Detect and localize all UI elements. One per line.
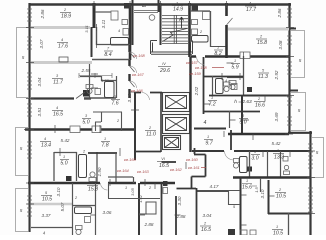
svg-text:4: 4 [91,181,93,185]
balcony left 1 [17,28,29,98]
wall left outer [28,3,30,232]
balcony right 2 [291,93,306,131]
TL bathtub [111,38,129,46]
toilet ML [86,85,93,94]
wall y214 stub [139,213,147,215]
label 5.0 left [60,155,69,167]
label room 16.5 [52,106,63,118]
svg-text:5: 5 [316,150,319,155]
wall 5.0r left x229 [229,111,231,128]
BR wc right partition x280 [280,151,282,177]
svg-text:3.10: 3.10 [56,187,61,196]
svg-text:кв.165: кв.165 [124,157,137,162]
BL sink [85,217,91,223]
wall x115 vertical corridor [115,153,117,182]
wall 9.7 right x231 [230,130,232,150]
label 15.8 bottom [87,181,98,193]
bottom center: wall x139 [138,183,140,235]
wall corridor left top [84,97,116,99]
door jamb x260 [260,178,262,192]
label 7.8 [101,137,110,149]
svg-text:IV: IV [162,62,166,66]
wall 5.9 bottom y77 [227,77,243,79]
BR dark square [247,167,252,172]
dark square in 11.7 [84,91,89,97]
svg-text:3.11: 3.11 [101,19,106,28]
svg-text:10.5: 10.5 [276,194,286,200]
label 10.5 right [275,188,286,200]
svg-text:16.5: 16.5 [53,112,63,118]
BR wall x288 lower [288,213,290,235]
stair landing box [151,41,193,55]
svg-text:3.18: 3.18 [127,93,132,102]
svg-text:4: 4 [61,38,63,42]
BL bathtub [75,207,92,214]
wall 11.7/16.5 divider [31,97,91,99]
label 5.0 right [239,114,248,126]
wall right outer upper [288,3,290,134]
svg-text:4: 4 [118,29,120,33]
svg-text:кв.160: кв.160 [186,157,199,162]
label room 18.9 [60,8,71,20]
BR wall y177 [233,176,311,178]
room 11.0 left wall [134,92,136,160]
room labels [40,2,286,237]
wall 16.5/13.4 apartment divider [25,128,136,131]
label room 17.6 [57,38,68,50]
svg-text:кв.158: кв.158 [195,65,208,70]
label lobby 29.6 [158,62,171,74]
label 10.x bottom right [272,225,283,237]
TR sink [192,20,198,25]
TR bath right wall [210,11,212,47]
svg-text:4: 4 [249,2,251,6]
door arc bottom y183 [101,183,108,190]
svg-text:кв.164: кв.164 [117,168,130,173]
svg-text:3.69: 3.69 [274,112,279,121]
wall 15.6/10.5 divider x268 [268,180,270,214]
wall corridor top y152 [88,152,117,154]
dark square 5.9 wc [247,87,252,92]
sink ML [95,89,101,95]
bottom center: wall x162 [161,183,163,235]
svg-text:10.5: 10.5 [273,231,283,236]
corridor bottom wall y162 [162,161,177,163]
wall 3.0/13.3 divider x267 [267,151,269,177]
svg-text:4: 4 [204,120,207,126]
MR toilet [224,82,231,92]
balcony right 1 [291,31,305,78]
door arc right y56 [197,57,205,65]
wall x174 bottom [175,196,177,235]
wall y128 corridor/9.7 [194,128,226,130]
svg-text:5.0: 5.0 [60,161,67,167]
svg-text:5: 5 [20,146,23,151]
svg-text:1: 1 [211,96,213,100]
ML closet walls under 7.6 [93,112,122,131]
label 10.5 left [41,191,52,203]
label 5.0 niche [82,114,91,126]
svg-text:5.0: 5.0 [239,120,246,126]
svg-text:4: 4 [56,106,58,110]
wall column 18.9 right [93,3,96,28]
MR bathtub vertical [216,79,224,94]
door arc corridor y151 [225,151,234,160]
svg-text:1: 1 [276,225,278,229]
wall hall 8.4 top y59.5 [92,59,130,61]
BR apt top wall y151 [192,150,311,152]
door leaf kv166 [130,81,135,87]
toilet 13.4 apt [89,172,96,182]
wall top outer [30,3,291,5]
wall corridor right x203 [203,57,205,114]
label 15.8 right [256,35,267,47]
TL apt: wall y12 [95,11,111,13]
svg-text:8.2: 8.2 [214,51,221,57]
stairwell left wall [160,3,162,45]
TR closet bottom wall [210,46,227,48]
svg-text:9.7: 9.7 [205,141,213,147]
svg-text:1: 1 [104,137,106,141]
elevator shaft 2 [163,115,190,134]
TR toilet [192,29,198,35]
wall right step nib y90 [289,90,298,92]
label lobby VI 16.5 [157,157,170,169]
svg-text:17.6: 17.6 [58,44,68,50]
svg-text:3.0: 3.0 [251,156,258,162]
chute room left wall [132,12,134,45]
corridor exit walls bottom-left jog [108,177,134,183]
wall y191 room 3.04 top [197,190,229,192]
lobby left wall with door gaps [128,45,130,98]
wall 16.6 bottom apt divider [228,133,289,136]
svg-text:2.86: 2.86 [277,8,282,18]
svg-text:11.3: 11.3 [258,74,268,80]
wall 17.6 right [91,27,93,57]
svg-text:4.17: 4.17 [210,184,219,189]
BR bathtub vertical [240,157,248,173]
svg-text:1.55: 1.55 [101,78,110,83]
bath 13.4 apt: tub vertical [79,155,87,178]
svg-text:1: 1 [246,179,248,183]
svg-text:3.08: 3.08 [278,40,283,49]
vent box wall 17.6 bottom [59,57,68,62]
wall 10.5 bottom [31,203,72,206]
wall 3.37 bottom [31,227,72,229]
red leader line [212,67,224,69]
BR wall y213 [268,213,311,215]
svg-text:13.3: 13.3 [274,155,284,161]
label 15.6 [242,179,257,191]
label 17.7 [245,2,257,14]
svg-text:2.86: 2.86 [40,9,45,19]
svg-text:кв.159: кв.159 [189,71,202,76]
svg-text:1: 1 [125,186,127,190]
door arc lobby kv167 [130,66,137,73]
svg-text:5: 5 [298,108,301,113]
svg-text:1.5: 1.5 [254,186,259,192]
vent box on 15.8 wall [240,52,250,59]
bottom small box right [250,230,256,235]
TL shaft dark box [124,3,130,9]
svg-text:16.5: 16.5 [201,227,211,233]
BR bath right wall x249 [249,151,251,177]
wall 11.3 bottom y95 [243,95,289,97]
TR bathtub [192,36,209,43]
wall left of elevators [160,92,162,152]
wall right step [288,132,312,134]
svg-text:14.9: 14.9 [173,7,183,13]
svg-text:5: 5 [20,208,23,213]
svg-text:5: 5 [299,58,302,63]
TR apt: dark shaft box [192,5,199,11]
svg-text:10.5: 10.5 [42,197,52,203]
label 5.9 [231,59,240,71]
balcony left 2 [16,128,29,176]
balcony left 3 [16,189,29,232]
garbage chute circle [149,15,155,21]
svg-text:2.88: 2.88 [144,222,154,227]
label 16.6 [254,97,265,109]
label 7.2 [208,96,217,108]
wall right of elevators [189,57,191,152]
svg-text:1: 1 [176,2,178,6]
bottom edge duct marks [228,229,235,235]
wall bottom apartments divider y182 [28,182,175,184]
svg-text:18.9: 18.9 [61,14,71,20]
room 5.0 left box [54,152,77,181]
elevator shaft 1 [163,93,190,112]
TL storage box [111,11,118,20]
door arc lobby kv166 [130,81,137,88]
door arc lobby kv168 [130,52,137,59]
MR bath top wall y76 [203,76,243,78]
wall 15.8 bottom apt divider [191,55,289,57]
label hall 8.4 [104,47,113,59]
svg-text:16.5: 16.5 [159,163,169,169]
svg-text:15.8: 15.8 [88,187,98,193]
svg-text:3.11: 3.11 [84,25,89,33]
dim line 2.55 [79,73,112,78]
TL kitchen right wall [129,3,132,60]
svg-text:1: 1 [217,46,219,50]
door arc 11.0 [142,92,150,100]
TR wall y11 [190,10,210,12]
label 7.6 [111,95,120,107]
svg-text:2.92: 2.92 [274,70,279,80]
wall 11.7 right [89,64,91,98]
closet 5 in bottom right room [228,190,240,205]
label 16.5 bottom [200,222,211,234]
vent box on divider 1 [70,126,80,133]
wall 17.7/15.8 divider [228,28,289,31]
svg-text:15.8: 15.8 [257,40,267,46]
bathtub ML vertical [105,82,115,98]
wall right outer lower [309,131,311,235]
label 11.0 [145,126,156,138]
svg-text:h = 2.63: h = 2.63 [234,99,252,105]
MR sink [232,84,238,90]
small shaft 3 [163,136,181,150]
vent box on divider 2 [92,126,101,133]
svg-text:7.2: 7.2 [208,102,215,108]
svg-text:4: 4 [44,137,46,141]
label 13.4 [40,137,51,149]
svg-text:2.02: 2.02 [194,86,199,96]
zigzag corridor-apartment walls [177,148,206,235]
shaft boxes right of x162 [163,181,168,186]
svg-text:1.90: 1.90 [97,167,102,176]
balcony right 3 [312,138,324,178]
svg-text:5: 5 [22,55,25,60]
door leaf 11.7 [76,92,85,99]
BR bath left fixtures: toilet [233,159,239,169]
wall 17.6/11.7 divider [31,61,92,64]
duct box room 2 [146,202,156,214]
label 13.3 [273,149,284,161]
bottom center wall y198 [108,198,160,200]
MR bath bottom wall y95 [209,95,243,97]
svg-text:кв.162: кв.162 [170,167,183,172]
svg-text:3.10: 3.10 [260,189,265,198]
wall 5.9 left x243 [243,56,245,95]
svg-text:3.51: 3.51 [37,107,42,116]
door leaf kv167 [130,66,135,72]
svg-text:1: 1 [254,150,256,154]
red apartment labels [117,53,224,174]
toilet 5.9 wc [229,81,236,90]
MR bath left wall x212 [212,76,214,96]
label 3.0 [251,150,260,162]
svg-text:5.42: 5.42 [61,138,70,143]
svg-text:5.0: 5.0 [82,120,89,126]
TR kitchen block right wall [225,3,228,58]
svg-text:3.37: 3.37 [42,213,51,218]
svg-text:2.55: 2.55 [81,68,91,73]
svg-text:17.7: 17.7 [246,7,257,13]
stairs up arrow [180,17,184,28]
TL wall x96 vertical [96,27,98,45]
dark square in 5.0 [66,176,72,181]
wall 16.6 left x242 [241,95,243,133]
svg-text:3.06: 3.06 [103,210,112,215]
svg-text:кв.168: кв.168 [133,53,146,58]
ML hall walls [80,76,117,98]
stairwell right wall [188,3,191,57]
room 11.0 bottom wall [135,151,161,153]
svg-text:29.6: 29.6 [159,68,170,74]
svg-text:кв.167: кв.167 [132,72,145,77]
shaft door double line [134,11,158,13]
svg-text:16.6: 16.6 [255,103,265,109]
svg-text:1: 1 [63,155,65,159]
svg-text:15.6: 15.6 [242,185,252,191]
svg-text:11.0: 11.0 [146,132,156,138]
svg-text:3.07: 3.07 [39,39,44,48]
BL toilet [76,226,83,235]
windows left wall [27,9,32,216]
door leaf kv168 [130,52,135,58]
svg-text:4: 4 [225,79,227,83]
wall right of bath x97 [96,152,98,184]
svg-text:5.07: 5.07 [60,202,65,211]
wall right nib y28 [289,28,296,30]
label hall 8.2 [214,46,223,58]
svg-text:1.52: 1.52 [138,194,143,203]
svg-text:8.4: 8.4 [104,52,111,58]
svg-text:5.42: 5.42 [272,141,281,146]
core: shaft room Sh [133,0,159,12]
wall 18.9/17.6 divider [31,26,90,29]
TL toilet [123,29,129,36]
svg-text:7.6: 7.6 [111,101,118,107]
label stair 14.9 [172,2,183,13]
svg-text:3.04: 3.04 [37,77,42,86]
wall 7.2 bottom y111 [203,111,260,113]
svg-text:5.9: 5.9 [231,65,238,71]
BR wall x240 lower [240,177,242,235]
TL bath bottom wall [96,44,130,46]
TR closet box [203,12,211,20]
stairs break line [163,29,188,42]
svg-text:3.30: 3.30 [177,196,182,205]
svg-text:2.88: 2.88 [176,214,186,219]
svg-text:7.8: 7.8 [101,143,108,149]
svg-text:кв.163: кв.163 [137,169,150,174]
stairs treads [162,15,188,44]
svg-text:1: 1 [234,59,236,63]
label room 11.7 [52,74,64,86]
wall x191 corridor left [190,128,192,152]
TL sink [122,20,128,25]
label 9.7 [204,135,214,147]
bottom center wall x108 [108,183,110,198]
svg-text:3.04: 3.04 [203,213,212,218]
svg-text:1: 1 [207,135,209,139]
windows right wall [287,9,313,212]
bottom-left bath walls [73,183,96,235]
svg-text:13.4: 13.4 [41,143,51,149]
svg-text:11.7: 11.7 [53,80,64,86]
label 11.3 [258,69,269,81]
BR wc sink [283,157,288,162]
BR wc toilet [284,165,290,174]
svg-text:1: 1 [114,95,116,99]
svg-text:кв.161: кв.161 [188,165,200,170]
svg-text:3.05: 3.05 [130,187,135,196]
